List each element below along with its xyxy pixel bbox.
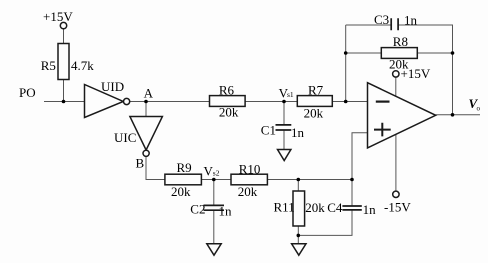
capacitor C1 plates — [276, 125, 292, 130]
ground below C2 — [207, 244, 221, 255]
svg-text:o: o — [477, 105, 481, 113]
svg-text:UID: UID — [101, 79, 124, 94]
svg-text:B: B — [136, 156, 145, 171]
wire C2 to ground — [213, 211, 215, 244]
junction R11 top — [297, 178, 301, 182]
inverter UIC — [130, 117, 163, 151]
wire node A down to UIC — [145, 102, 147, 117]
wire R11 bottom lead to ground — [297, 226, 299, 244]
svg-text:-15V: -15V — [384, 200, 411, 215]
terminal +15V op-amp supply — [393, 71, 399, 77]
ground below R11 — [292, 244, 306, 255]
resistor R7 — [297, 96, 332, 107]
capacitor C3 plates — [391, 18, 398, 30]
terminal +15V top-left — [60, 22, 66, 28]
svg-text:C3: C3 — [374, 12, 389, 27]
wire R10 to C4 node — [267, 179, 352, 181]
svg-text:4.7k: 4.7k — [71, 58, 94, 73]
wire C4 bottom to R11 bottom node — [298, 211, 352, 236]
svg-text:R8: R8 — [393, 34, 408, 49]
svg-text:20k: 20k — [304, 105, 324, 120]
svg-text:20k: 20k — [305, 200, 325, 215]
junction R11 bottom — [297, 234, 301, 238]
wire Vs2 node down to C2 — [213, 180, 215, 205]
op-amp U — [368, 83, 436, 148]
svg-text:+15V: +15V — [43, 9, 73, 24]
wire UIC bubble to node B corner to R9 — [146, 157, 165, 180]
terminal -15V op-amp supply — [393, 191, 399, 197]
wire R6 to R7 — [245, 101, 297, 103]
svg-text:R9: R9 — [177, 160, 192, 175]
svg-text:C4: C4 — [327, 200, 343, 215]
svg-text:20k: 20k — [219, 105, 239, 120]
svg-text:20k: 20k — [171, 184, 191, 199]
svg-text:C2: C2 — [190, 202, 205, 217]
op-amp plus symbol — [374, 123, 391, 137]
wire output — [436, 114, 480, 116]
wire C1 to ground — [283, 131, 285, 150]
wire PO lead — [44, 101, 85, 103]
ground below C1 — [278, 150, 291, 161]
svg-text:s1: s1 — [287, 90, 294, 99]
junction output — [451, 113, 455, 117]
wire R8 right lead — [417, 52, 452, 54]
svg-text:R5: R5 — [41, 58, 56, 73]
junction minus input — [344, 100, 348, 104]
junction node A — [144, 100, 148, 104]
wire R11 top lead — [297, 180, 299, 192]
svg-text:PO: PO — [19, 85, 36, 100]
resistor R11 — [293, 191, 305, 226]
junction C4 top / plus input — [350, 178, 354, 182]
junction node Vs2 — [212, 178, 216, 182]
wire R9 to R10 — [201, 179, 231, 181]
svg-text:R11: R11 — [274, 200, 295, 215]
capacitor C4 plates — [342, 206, 361, 210]
svg-text:R10: R10 — [239, 161, 261, 176]
wire +15V terminal to R5 — [63, 29, 65, 44]
resistor R6 — [210, 96, 246, 107]
resistor R5 — [58, 44, 69, 80]
capacitor C2 plates — [204, 205, 225, 210]
wire R7 to op-amp minus input — [332, 101, 367, 103]
wire UID output to R6 — [130, 101, 210, 103]
junction node Vs1 — [282, 100, 286, 104]
wire C4 top lead — [351, 180, 353, 206]
svg-text:A: A — [144, 85, 154, 100]
svg-text:UIC: UIC — [114, 130, 136, 145]
svg-text:R7: R7 — [308, 82, 324, 97]
svg-text:1n: 1n — [291, 125, 305, 140]
wire R5 bottom to main node — [63, 80, 65, 102]
wire plus input to op-amp — [352, 133, 368, 180]
resistor R9 — [165, 174, 202, 185]
wire feedback left vertical — [345, 25, 347, 102]
svg-text:1n: 1n — [404, 13, 418, 28]
op-amp minus symbol — [376, 100, 390, 102]
wire -15V supply pin — [395, 134, 397, 191]
junction node PO/R5 — [62, 100, 66, 104]
wire top feedback through C3 — [346, 25, 453, 115]
inverter UID — [85, 85, 124, 118]
svg-text:20k: 20k — [238, 184, 258, 199]
svg-text:1n: 1n — [219, 204, 233, 219]
svg-text:1n: 1n — [363, 202, 377, 217]
svg-text:+15V: +15V — [401, 66, 431, 81]
junction R8 right — [451, 51, 455, 55]
wire +15V supply pin — [395, 77, 397, 96]
wire R8 left lead — [346, 52, 382, 54]
junction R8 left — [344, 51, 348, 55]
resistor R10 — [231, 174, 267, 185]
resistor R8 — [381, 48, 417, 59]
wire Vs1 node down to C1 — [283, 102, 285, 125]
svg-text:s2: s2 — [213, 168, 220, 177]
svg-text:R6: R6 — [219, 82, 235, 97]
svg-text:C1: C1 — [261, 122, 276, 137]
